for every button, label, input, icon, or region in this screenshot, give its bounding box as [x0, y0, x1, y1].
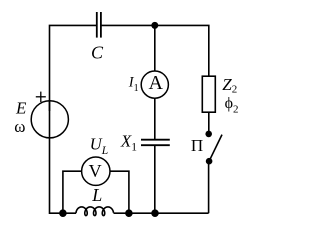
- svg-text:X1: X1: [120, 131, 137, 153]
- resistor Z2 box: [202, 76, 215, 112]
- wire voltmeter left leg: [63, 171, 82, 213]
- svg-text:П: П: [191, 136, 203, 155]
- switch Pi blade: [209, 135, 222, 162]
- wire inductor to right: [114, 212, 209, 214]
- wire top-right segment: [101, 25, 209, 76]
- wire top-left segment: [50, 25, 97, 111]
- capacitor C: [97, 12, 101, 38]
- wire X1 to bottom node: [154, 145, 156, 213]
- node bottom-left junction: [59, 209, 67, 217]
- svg-text:ω: ω: [14, 117, 25, 136]
- svg-text:UL: UL: [90, 135, 108, 157]
- ammeter A circle: [141, 71, 168, 98]
- wire ammeter to X1: [154, 98, 156, 139]
- voltmeter V circle: [82, 157, 110, 185]
- svg-text:A: A: [149, 72, 164, 94]
- svg-text:I1: I1: [128, 74, 139, 94]
- source E circle: [31, 101, 68, 138]
- svg-text:V: V: [89, 161, 102, 181]
- wire middle branch upper: [154, 25, 156, 71]
- wire Z2 to switch: [208, 112, 210, 134]
- wire source to bottom-left corner: [50, 138, 77, 213]
- capacitor X1: [141, 140, 170, 146]
- svg-text:C: C: [91, 43, 104, 63]
- node top junction: [151, 22, 158, 29]
- node bottom X1 junction: [151, 209, 159, 217]
- svg-text:Z2: Z2: [222, 75, 237, 96]
- wire voltmeter right leg: [110, 171, 129, 213]
- wire through source: [49, 101, 51, 138]
- svg-text:L: L: [91, 185, 102, 205]
- svg-text:E: E: [15, 99, 27, 118]
- switch Pi bottom contact: [206, 158, 213, 165]
- label + polarity of source E: [36, 92, 46, 102]
- inductor L: [76, 207, 113, 216]
- node bottom-middle junction: [125, 209, 133, 217]
- wire bottom-right vertical: [208, 161, 210, 213]
- switch Pi top contact: [205, 131, 212, 138]
- svg-text:ϕ2: ϕ2: [225, 95, 239, 116]
